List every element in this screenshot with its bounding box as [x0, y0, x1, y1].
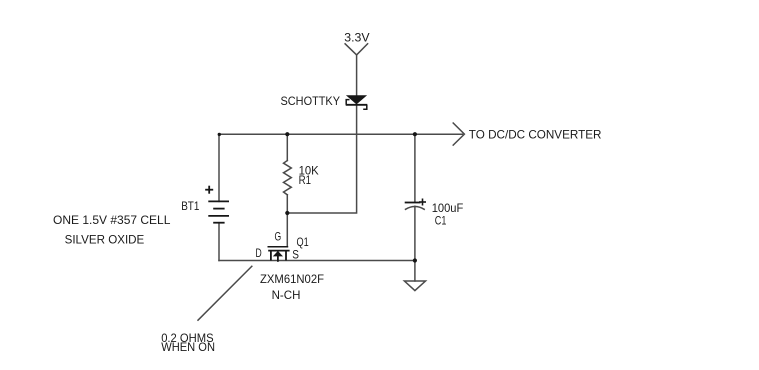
svg-text:N-CH: N-CH: [272, 288, 301, 302]
svg-text:TO DC/DC CONVERTER: TO DC/DC CONVERTER: [469, 128, 602, 142]
svg-text:S: S: [292, 248, 299, 262]
svg-text:ZXM61N02F: ZXM61N02F: [260, 272, 324, 286]
svg-text:SILVER OXIDE: SILVER OXIDE: [65, 232, 145, 246]
svg-text:R1: R1: [299, 173, 312, 187]
svg-text:ONE 1.5V #357 CELL: ONE 1.5V #357 CELL: [53, 213, 171, 227]
svg-text:BT1: BT1: [181, 199, 199, 213]
svg-text:WHEN ON: WHEN ON: [161, 340, 215, 354]
svg-text:G: G: [275, 229, 282, 243]
svg-text:D: D: [256, 246, 262, 260]
svg-text:SCHOTTKY: SCHOTTKY: [281, 94, 341, 108]
svg-text:3.3V: 3.3V: [344, 31, 369, 45]
svg-text:C1: C1: [435, 214, 447, 228]
